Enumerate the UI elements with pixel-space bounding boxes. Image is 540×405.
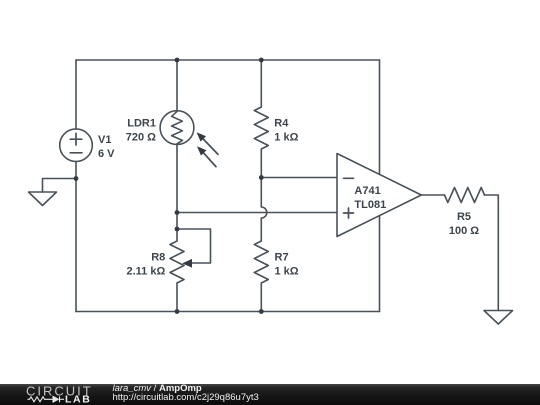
svg-text:720 Ω: 720 Ω <box>126 131 156 143</box>
svg-text:1 kΩ: 1 kΩ <box>274 131 298 143</box>
svg-text:LDR1: LDR1 <box>127 117 156 129</box>
svg-text:TL081: TL081 <box>354 199 386 211</box>
svg-text:LAB: LAB <box>65 394 91 405</box>
svg-text:2.11 kΩ: 2.11 kΩ <box>127 265 166 277</box>
svg-text:A741: A741 <box>354 185 380 197</box>
svg-text:1 kΩ: 1 kΩ <box>275 265 299 277</box>
svg-text:R7: R7 <box>275 251 289 263</box>
svg-text:V1: V1 <box>98 134 111 146</box>
svg-text:100 Ω: 100 Ω <box>449 225 479 237</box>
svg-text:R5: R5 <box>457 211 471 223</box>
svg-text:R4: R4 <box>274 117 289 129</box>
svg-text:6 V: 6 V <box>98 148 115 160</box>
svg-text:R8: R8 <box>151 251 165 263</box>
